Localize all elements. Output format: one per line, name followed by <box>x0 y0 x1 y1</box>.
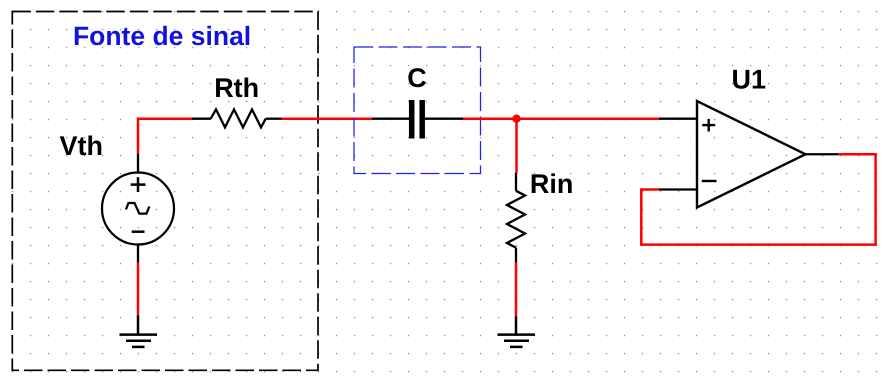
source Vth lead top <box>137 154 139 173</box>
source Vth lead bottom <box>137 245 139 263</box>
svg-text:Rin: Rin <box>530 169 574 199</box>
op-amp U1 pin - lead <box>659 188 697 190</box>
op-amp U1 pin + lead <box>659 118 697 120</box>
ground <box>120 315 158 347</box>
ground <box>498 317 536 347</box>
capacitor C <box>372 100 463 139</box>
svg-text:U1: U1 <box>732 65 767 95</box>
wire <box>463 117 659 120</box>
junction node <box>512 115 520 123</box>
svg-text:Rth: Rth <box>214 73 259 103</box>
svg-text:C: C <box>407 63 427 93</box>
source Vth <box>102 173 174 245</box>
op-amp U1 <box>697 101 806 208</box>
dashed box around C <box>354 47 481 174</box>
wire <box>515 119 518 173</box>
wire <box>138 119 192 154</box>
wire <box>137 263 140 316</box>
svg-text:Fonte de sinal: Fonte de sinal <box>73 21 251 51</box>
wire feedback loop <box>641 154 875 244</box>
wire <box>515 262 518 316</box>
resistor Rin <box>507 173 525 263</box>
op-amp U1 output lead <box>806 153 839 155</box>
svg-text:Vth: Vth <box>60 131 104 161</box>
dashed box Fonte de sinal <box>12 12 318 371</box>
wire <box>282 117 373 120</box>
resistor Rth <box>192 109 282 127</box>
